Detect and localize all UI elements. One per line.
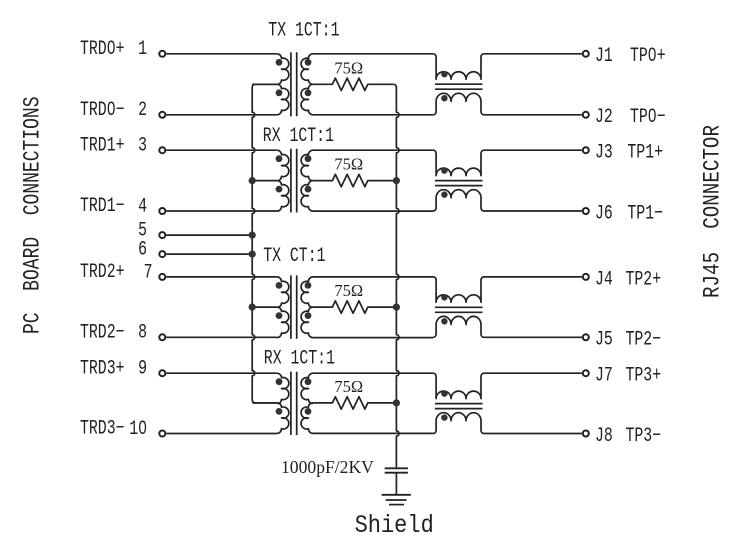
svg-text:TP3−: TP3− xyxy=(626,425,662,448)
svg-text:TP0−: TP0− xyxy=(630,106,666,129)
svg-text:J2: J2 xyxy=(595,106,613,129)
svg-text:8: 8 xyxy=(138,322,147,345)
svg-text:TRD3−: TRD3− xyxy=(80,418,124,441)
svg-text:TX CT:1: TX CT:1 xyxy=(263,245,325,268)
svg-text:Shield: Shield xyxy=(355,512,434,539)
svg-text:TP1−: TP1− xyxy=(627,202,663,225)
svg-text:9: 9 xyxy=(138,358,147,381)
svg-text:J6: J6 xyxy=(595,202,613,225)
svg-text:TRD1+: TRD1+ xyxy=(80,134,124,157)
svg-text:J8: J8 xyxy=(595,425,613,448)
svg-text:4: 4 xyxy=(138,195,147,218)
svg-text:TP1+: TP1+ xyxy=(627,142,663,165)
svg-text:6: 6 xyxy=(138,239,147,262)
svg-text:RX 1CT:1: RX 1CT:1 xyxy=(263,125,334,148)
svg-text:TRD0+: TRD0+ xyxy=(80,38,124,61)
svg-text:J7: J7 xyxy=(595,365,613,388)
svg-text:75Ω: 75Ω xyxy=(334,281,363,300)
svg-text:TRD2−: TRD2− xyxy=(80,322,124,345)
svg-text:J1: J1 xyxy=(595,45,613,68)
svg-text:TP2−: TP2− xyxy=(626,329,662,352)
svg-text:7: 7 xyxy=(144,261,153,284)
svg-text:TRD2+: TRD2+ xyxy=(80,261,124,284)
svg-text:TRD3+: TRD3+ xyxy=(80,357,124,380)
svg-text:1000pF/2KV: 1000pF/2KV xyxy=(281,457,374,477)
svg-text:2: 2 xyxy=(138,99,147,122)
svg-text:75Ω: 75Ω xyxy=(334,377,363,396)
svg-text:RX 1CT:1: RX 1CT:1 xyxy=(264,348,335,371)
svg-text:TRD1−: TRD1− xyxy=(80,195,124,218)
svg-text:75Ω: 75Ω xyxy=(334,155,363,174)
svg-text:TP2+: TP2+ xyxy=(626,268,662,291)
svg-text:10: 10 xyxy=(129,418,147,441)
svg-text:J3: J3 xyxy=(595,142,613,165)
svg-text:3: 3 xyxy=(138,135,147,158)
svg-text:TRD0−: TRD0− xyxy=(80,99,124,122)
svg-text:75Ω: 75Ω xyxy=(334,58,363,77)
svg-text:J5: J5 xyxy=(595,329,613,352)
svg-text:TP3+: TP3+ xyxy=(626,365,662,388)
svg-text:RJ45 CONNECTOR: RJ45 CONNECTOR xyxy=(700,125,726,298)
svg-text:PC BOARD CONNECTIONS: PC BOARD CONNECTIONS xyxy=(20,96,46,334)
svg-text:1: 1 xyxy=(138,38,147,61)
svg-text:TX 1CT:1: TX 1CT:1 xyxy=(268,20,339,43)
svg-text:J4: J4 xyxy=(595,268,613,291)
svg-text:TP0+: TP0+ xyxy=(630,45,666,68)
